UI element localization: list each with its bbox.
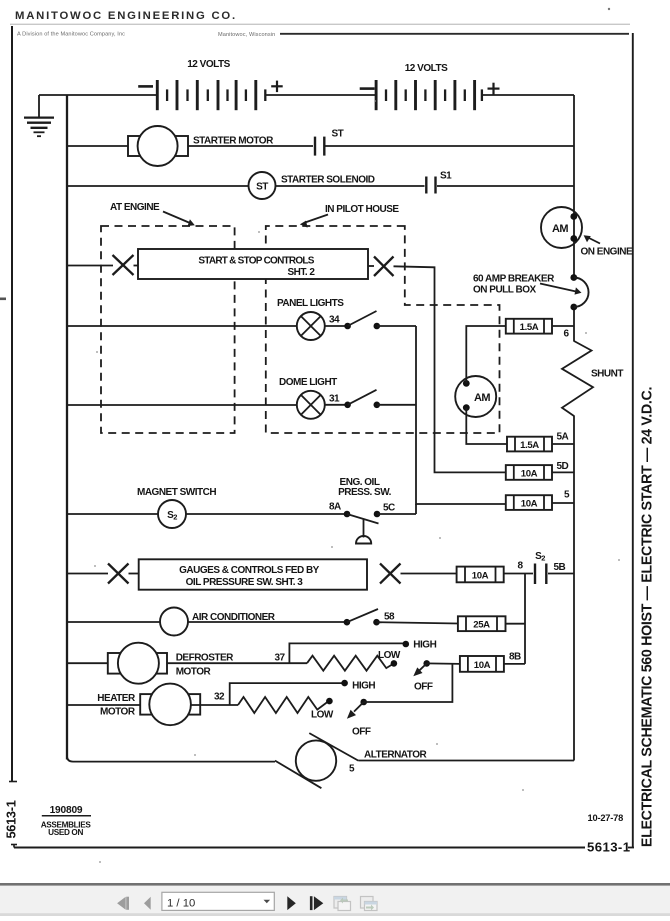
- svg-text:5C: 5C: [383, 502, 395, 513]
- ground: [24, 95, 54, 136]
- wire pilot ammeter to fuse 1.5A (6): [466, 326, 506, 383]
- wire magnet switch row: [67, 513, 158, 515]
- fuse 1.5A node 6: [506, 319, 552, 334]
- pdf viewer toolbar: [0, 883, 670, 916]
- node HIGH defroster: [403, 641, 410, 648]
- switch 58: [344, 609, 380, 626]
- wire battery 1 to battery 2: [265, 94, 376, 96]
- X mark left of gauges box: [108, 564, 139, 584]
- svg-text:OIL PRESSURE SW. SHT. 3: OIL PRESSURE SW. SHT. 3: [186, 577, 304, 588]
- assemblies used on block: [41, 805, 92, 837]
- svg-text:5A: 5A: [557, 432, 569, 443]
- X mark right of gauges box: [380, 564, 401, 584]
- svg-text:1 / 10: 1 / 10: [167, 897, 195, 909]
- page number input 1 / 10: [162, 892, 274, 910]
- wire node 8 vertical junction: [524, 574, 526, 664]
- wire lamp to switch 34: [325, 325, 348, 327]
- svg-text:STARTER MOTOR: STARTER MOTOR: [193, 136, 274, 147]
- ammeter AM in pilot house: [455, 376, 496, 417]
- svg-text:31: 31: [329, 394, 340, 405]
- wire left bus: [66, 95, 68, 760]
- starter motor: [128, 126, 188, 166]
- svg-text:MOTOR: MOTOR: [100, 706, 136, 717]
- lamp PANEL LIGHTS: [297, 312, 325, 340]
- svg-text:AT ENGINE: AT ENGINE: [110, 202, 160, 213]
- page border bottom: [14, 847, 585, 849]
- svg-text:12 VOLTS: 12 VOLTS: [405, 63, 448, 74]
- svg-text:34: 34: [329, 315, 340, 326]
- contact S1: [426, 177, 435, 194]
- wire bottom row left: [67, 756, 275, 762]
- wire fuse 5A to right bus: [552, 443, 574, 445]
- box START &amp; STOP CONTROLS SHT. 2: [138, 249, 368, 279]
- wire lamp to switch 31: [325, 404, 348, 406]
- svg-text:ST: ST: [332, 129, 344, 140]
- svg-text:60 AMP BREAKER: 60 AMP BREAKER: [473, 274, 555, 285]
- fuse 25A: [458, 616, 506, 631]
- svg-text:ALTERNATOR: ALTERNATOR: [364, 749, 427, 760]
- wire fuse 5D to right bus: [552, 471, 574, 473]
- wire alternator to right bus: [358, 760, 574, 762]
- wire start-stop X to 5D fuse (via vertical): [394, 266, 506, 472]
- wire air conditioner row: [67, 621, 160, 623]
- wire ground to battery 1: [39, 94, 157, 96]
- svg-text:HIGH: HIGH: [413, 639, 436, 650]
- air conditioner motor: [160, 608, 188, 636]
- svg-text:GAUGES & CONTROLS FED BY: GAUGES & CONTROLS FED BY: [179, 565, 320, 576]
- wire fuse 8 to contact S2: [504, 573, 533, 575]
- svg-text:SHUNT: SHUNT: [591, 369, 623, 380]
- heater motor: [140, 684, 200, 726]
- label 60 AMP BREAKER ON PULL BOX: [473, 274, 582, 296]
- label DEFROSTER MOTOR: [176, 652, 234, 677]
- pressure switch ENG OIL PRESS SW: [344, 511, 381, 544]
- wire right bus below shunt: [573, 416, 575, 761]
- svg-text:OFF: OFF: [352, 726, 371, 737]
- last page button: [310, 896, 323, 910]
- circuit breaker 60 AMP: [570, 274, 588, 310]
- starter solenoid ST: [249, 172, 276, 199]
- wire 5C jog: [415, 504, 417, 514]
- svg-text:S2: S2: [167, 510, 177, 522]
- svg-text:STARTER SOLENOID: STARTER SOLENOID: [281, 175, 375, 186]
- wire heater high branch: [230, 683, 345, 705]
- wire panel lights row: [67, 325, 297, 327]
- svg-text:5613-1: 5613-1: [4, 800, 19, 838]
- svg-text:DEFROSTER: DEFROSTER: [176, 652, 234, 663]
- wire solenoid to contact S1: [276, 185, 425, 187]
- resistor heater: [238, 697, 329, 713]
- fuse 10A node 5D: [506, 465, 552, 480]
- page border right: [632, 33, 634, 848]
- svg-text:MANITOWOC ENGINEERING CO.: MANITOWOC ENGINEERING CO.: [15, 10, 237, 22]
- svg-text:START & STOP CONTROLS: START & STOP CONTROLS: [198, 255, 314, 266]
- fuse 10A node 8B: [460, 656, 504, 672]
- wire heater switch to fuse 8B junction: [364, 664, 453, 702]
- svg-text:USED ON: USED ON: [48, 828, 83, 837]
- node LOW heater: [326, 698, 333, 705]
- wire contact S2 to right bus: [548, 573, 574, 575]
- wire switch 31 to junction: [377, 404, 416, 406]
- wire contact ST to right bus: [326, 145, 575, 147]
- svg-text:MAGNET SWITCH: MAGNET SWITCH: [137, 487, 216, 498]
- switch 34: [344, 311, 380, 329]
- svg-text:OFF: OFF: [414, 682, 433, 693]
- svg-text:37: 37: [275, 653, 286, 664]
- magnet switch S2: [158, 500, 186, 528]
- switch 31: [344, 390, 380, 408]
- svg-text:12 VOLTS: 12 VOLTS: [187, 59, 230, 70]
- wire motor to contact ST: [188, 145, 313, 147]
- shunt resistor: [562, 341, 593, 416]
- wire starter motor row: [67, 145, 128, 147]
- svg-text:5613-1: 5613-1: [587, 840, 630, 855]
- X mark left of controls box: [113, 255, 139, 275]
- battery B1 12 VOLTS: [138, 59, 283, 110]
- wire right bus upper: [573, 95, 575, 278]
- fuse 10A node 5: [506, 495, 552, 510]
- svg-text:LOW: LOW: [378, 650, 401, 661]
- wire defroster high branch: [289, 643, 405, 663]
- svg-text:5B: 5B: [554, 562, 566, 573]
- defroster motor: [108, 643, 167, 684]
- svg-text:ON PULL BOX: ON PULL BOX: [473, 285, 536, 296]
- svg-text:MOTOR: MOTOR: [176, 666, 212, 677]
- svg-text:DOME LIGHT: DOME LIGHT: [279, 377, 337, 388]
- svg-text:10-27-78: 10-27-78: [588, 813, 624, 823]
- svg-text:10A: 10A: [521, 468, 538, 479]
- wire switch 58 to fuse 25A: [377, 622, 458, 623]
- svg-text:ELECTRICAL SCHEMATIC 560 HOIST: ELECTRICAL SCHEMATIC 560 HOIST — ELECTRI…: [640, 387, 656, 847]
- wire fuse 25A to node 8 junction: [506, 623, 526, 625]
- lamp DOME LIGHT: [297, 391, 325, 419]
- svg-text:32: 32: [214, 692, 225, 703]
- dashed enclosure AT ENGINE: [101, 226, 235, 433]
- svg-text:25A: 25A: [473, 620, 490, 631]
- svg-text:S1: S1: [440, 171, 452, 182]
- wire switch 34 to junction: [377, 325, 416, 327]
- wire lights junction vertical to fuse 5: [416, 326, 506, 504]
- wire fuse 5 to right bus: [552, 502, 574, 504]
- svg-text:58: 58: [384, 611, 395, 622]
- svg-text:ON ENGINE: ON ENGINE: [581, 247, 633, 258]
- label IN PILOT HOUSE: [300, 204, 400, 228]
- svg-text:10A: 10A: [474, 660, 491, 671]
- svg-text:190809: 190809: [50, 805, 83, 816]
- svg-text:8A: 8A: [329, 501, 341, 512]
- ammeter AM on engine: [541, 207, 582, 248]
- svg-text:SHT. 2: SHT. 2: [287, 267, 315, 278]
- first page button: [117, 897, 129, 910]
- svg-text:PRESS. SW.: PRESS. SW.: [338, 487, 392, 498]
- battery B2 12 VOLTS: [360, 63, 500, 110]
- resistor defroster: [307, 656, 393, 671]
- svg-text:1.5A: 1.5A: [520, 322, 539, 333]
- svg-text:10A: 10A: [472, 570, 489, 581]
- label HEATER MOTOR: [97, 693, 136, 717]
- wire motor to branch 32: [191, 704, 238, 706]
- svg-text:S2: S2: [535, 551, 545, 563]
- previous view button (disabled): [334, 897, 351, 911]
- wire gauges row left: [67, 573, 108, 575]
- svg-text:AM: AM: [552, 223, 568, 235]
- fuse 10A node 8: [457, 567, 504, 583]
- wire gauges X to fuse 10A (8): [401, 573, 457, 575]
- svg-text:10A: 10A: [521, 499, 538, 510]
- wire motor to switch 58: [188, 621, 347, 623]
- next page button: [287, 896, 296, 910]
- svg-text:IN PILOT HOUSE: IN PILOT HOUSE: [325, 204, 399, 215]
- svg-text:5D: 5D: [557, 461, 569, 472]
- svg-text:ST: ST: [256, 182, 268, 193]
- node LOW defroster: [391, 660, 398, 667]
- svg-text:HIGH: HIGH: [352, 680, 375, 691]
- wire right bus lower: [573, 307, 575, 342]
- wire motor to branch 37: [167, 662, 307, 664]
- previous page button: [144, 897, 151, 910]
- label ON ENGINE: [581, 235, 633, 257]
- wire defroster row: [67, 662, 108, 664]
- fuse 1.5A node 5A: [507, 437, 552, 452]
- svg-text:PANEL LIGHTS: PANEL LIGHTS: [277, 298, 344, 309]
- wire 5C to fuse 5 junction: [377, 513, 416, 515]
- wire fuse 6 to right bus: [552, 325, 574, 327]
- wire fuse 8B to node 8 junction: [504, 663, 525, 665]
- wire magnet switch to pressure switch: [186, 513, 347, 515]
- wire battery 2 plus to right bus: [482, 94, 574, 96]
- contact ST: [315, 137, 324, 156]
- wire start-stop row left: [67, 265, 113, 267]
- svg-text:LOW: LOW: [311, 709, 334, 720]
- X mark right of controls box: [368, 257, 394, 277]
- wire contact S1 to right bus: [437, 185, 574, 187]
- alternator: [275, 733, 358, 788]
- node HIGH heater: [341, 680, 348, 687]
- switch heater OFF: [347, 699, 367, 719]
- wire pilot ammeter to fuse 1.5A (5A): [466, 408, 507, 444]
- wire switch to fuse 10A 8B: [427, 662, 460, 665]
- wire heater row: [67, 704, 140, 706]
- svg-text:AM: AM: [474, 392, 490, 404]
- dashed enclosure IN PILOT HOUSE: [266, 226, 500, 433]
- box GAUGES &amp; CONTROLS FED BY OIL PRESSURE SW. SHT. 3: [139, 559, 367, 589]
- next view button (disabled): [361, 897, 378, 911]
- svg-text:Manitowoc, Wisconsin: Manitowoc, Wisconsin: [218, 32, 275, 38]
- wire solenoid row: [67, 185, 249, 187]
- svg-text:8B: 8B: [509, 651, 521, 662]
- svg-text:A Division of the Manitowoc Co: A Division of the Manitowoc Company, Inc: [17, 32, 125, 38]
- label ENG. OIL PRESS. SW.: [338, 477, 392, 498]
- contact S2: [535, 564, 546, 585]
- svg-text:1.5A: 1.5A: [520, 440, 539, 451]
- svg-text:HEATER: HEATER: [97, 693, 136, 704]
- label AT ENGINE: [110, 202, 195, 226]
- wire dome light row: [67, 404, 297, 406]
- page border left: [9, 26, 17, 848]
- title MANITOWOC ENGINEERING CO.: [10, 10, 630, 38]
- switch defroster OFF: [413, 660, 430, 676]
